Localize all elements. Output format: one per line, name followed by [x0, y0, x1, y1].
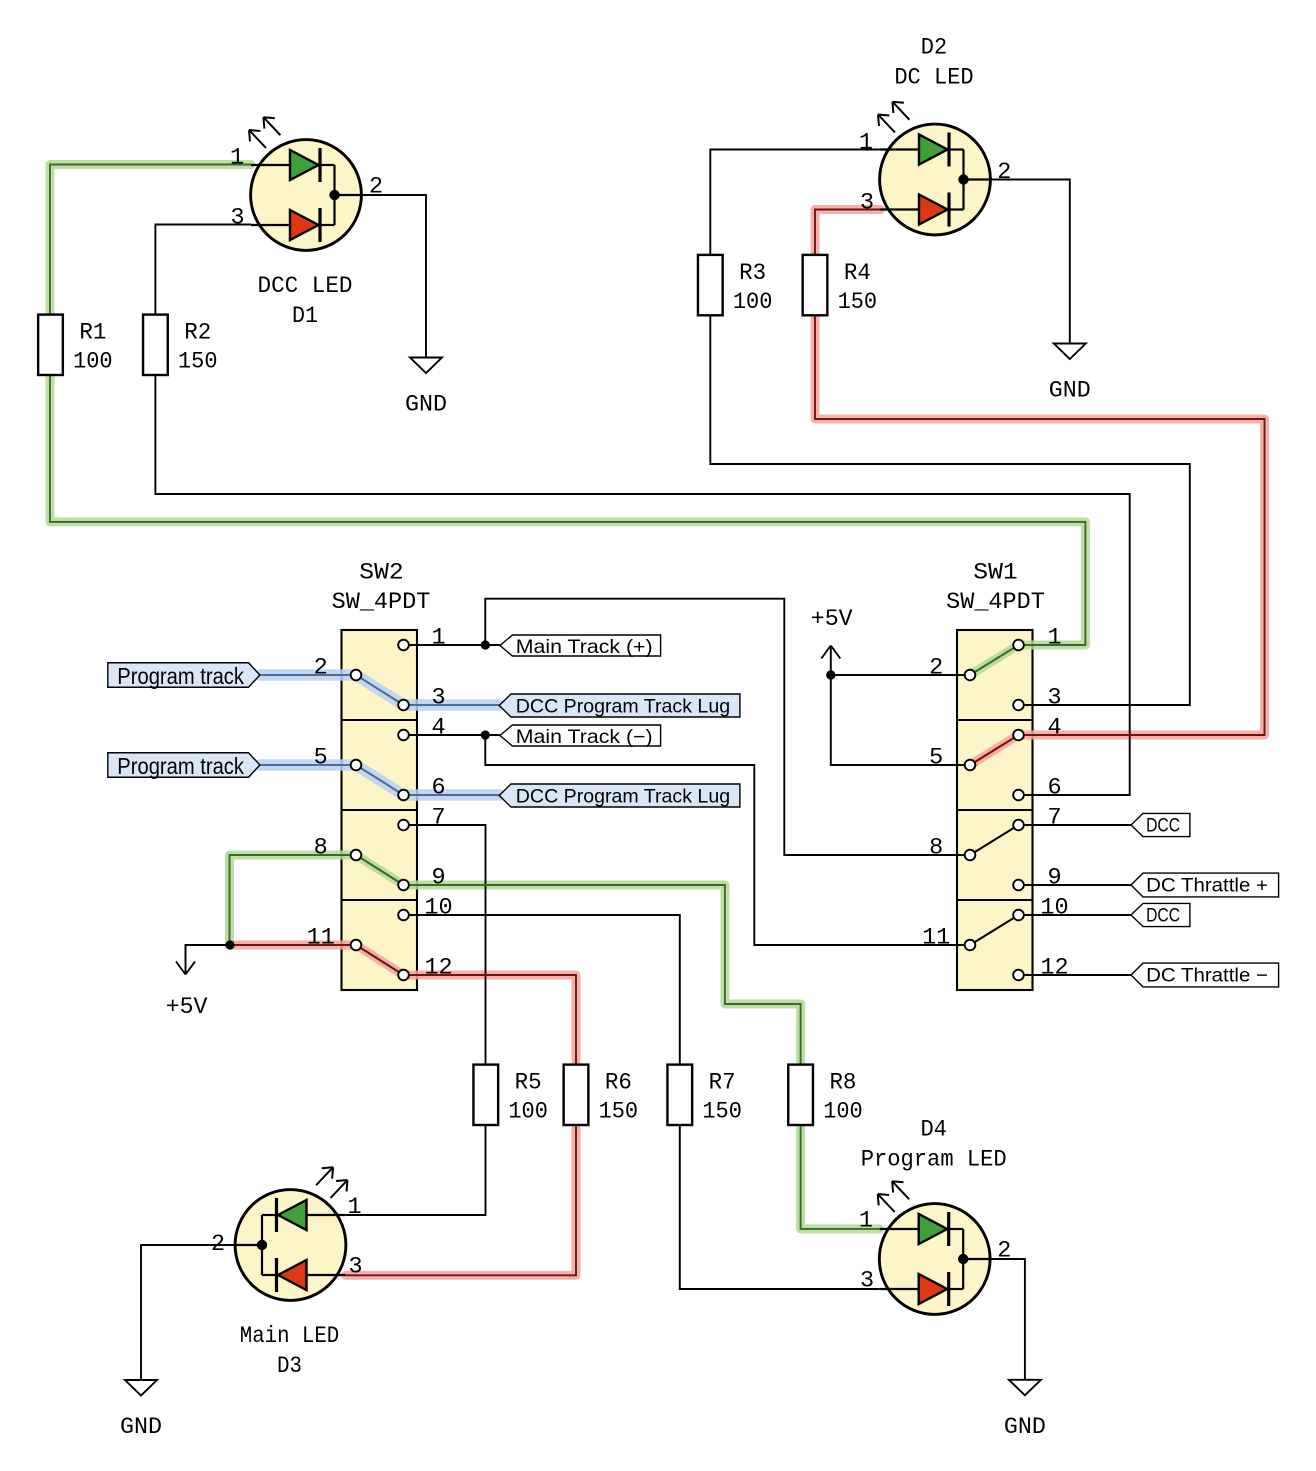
- svg-text:+5V: +5V: [811, 606, 853, 633]
- wire program-track net 2 blue glow: [260, 765, 499, 795]
- svg-text:2: 2: [211, 1231, 225, 1258]
- SW2 pin 2 circle: [351, 670, 362, 681]
- svg-text:SW_4PDT: SW_4PDT: [332, 589, 431, 616]
- svg-text:9: 9: [1047, 865, 1061, 892]
- net label Main Track (-): [500, 725, 661, 748]
- svg-text:2: 2: [369, 174, 383, 201]
- SW2 pin 7 circle: [398, 820, 409, 831]
- SW2 pin 10 circle: [398, 910, 409, 921]
- svg-text:100: 100: [733, 289, 773, 316]
- wire D1 pin3 to R2: [155, 225, 251, 315]
- svg-text:+5V: +5V: [166, 994, 208, 1021]
- junction +5V SW1: [826, 670, 835, 679]
- power symbol +5V at SW1: [811, 606, 853, 680]
- svg-text:2: 2: [997, 1238, 1011, 1265]
- resistor R3 100: [698, 255, 772, 316]
- svg-text:DCC Program Track Lug: DCC Program Track Lug: [516, 695, 730, 717]
- wire SW2 pin4 to Main Track - label: [409, 734, 500, 736]
- svg-text:12: 12: [1040, 955, 1068, 982]
- svg-text:D4: D4: [920, 1117, 947, 1144]
- wire D2 pin1 to R3: [710, 150, 880, 255]
- SW1 pin 2 circle: [965, 670, 976, 681]
- svg-text:2: 2: [314, 655, 328, 682]
- wire R3 to SW1 pin3: [710, 315, 1190, 705]
- SW1 pin 7 circle: [1013, 820, 1024, 831]
- SW2 pin 9 circle: [398, 880, 409, 891]
- wire program-LED net green glow: [230, 855, 880, 1229]
- SW2 lever pole2-throw3: [356, 675, 404, 705]
- svg-text:SW_4PDT: SW_4PDT: [946, 589, 1045, 616]
- wire SW2 pin1 to Main Track + label: [409, 644, 500, 646]
- svg-text:11: 11: [922, 925, 950, 952]
- resistor R5 100: [473, 1065, 547, 1126]
- net label DCC 1: [1131, 813, 1190, 836]
- switch SW2 body SW_4PDT: [342, 630, 418, 990]
- svg-text:Program track: Program track: [117, 663, 244, 689]
- svg-text:SW1: SW1: [973, 560, 1017, 587]
- SW1 pin 4 circle: [1013, 730, 1024, 741]
- svg-text:GND: GND: [120, 1414, 162, 1441]
- svg-text:9: 9: [431, 865, 445, 892]
- svg-text:DCC Program Track Lug: DCC Program Track Lug: [516, 785, 730, 807]
- svg-text:D1: D1: [292, 303, 318, 330]
- svg-text:GND: GND: [1049, 378, 1091, 405]
- SW2 pin 6 circle: [398, 790, 409, 801]
- net label DCC 2: [1131, 903, 1190, 926]
- wire red net main LED core: [230, 945, 576, 1275]
- svg-text:DCC LED: DCC LED: [258, 273, 353, 300]
- SW2 pin 4 circle: [398, 730, 409, 741]
- resistor R8 100: [788, 1065, 862, 1126]
- resistor R1 100: [38, 315, 112, 376]
- svg-text:Program LED: Program LED: [861, 1147, 1007, 1174]
- SW2 pin 8 circle: [351, 850, 362, 861]
- wire R2 to SW1 pin6: [155, 375, 1129, 795]
- SW1 pin 1 circle: [1013, 640, 1024, 651]
- wire blue net 1 core: [260, 675, 499, 705]
- svg-text:R8: R8: [829, 1070, 856, 1097]
- svg-text:D2: D2: [921, 35, 947, 62]
- wire D1 pin2 to GND: [361, 195, 426, 358]
- svg-text:GND: GND: [405, 392, 447, 419]
- svg-text:6: 6: [1047, 775, 1061, 802]
- SW1 pin 11 circle: [965, 940, 976, 951]
- svg-text:R2: R2: [184, 320, 211, 347]
- wire +5V branch SW2: [186, 945, 230, 961]
- svg-text:2: 2: [929, 655, 943, 682]
- svg-text:2: 2: [997, 159, 1011, 186]
- svg-text:R7: R7: [709, 1070, 736, 1097]
- SW1 lever pole8-throw7: [970, 825, 1019, 855]
- junction +5V SW2: [225, 940, 234, 949]
- net label DCC Program Track Lug 1: [499, 694, 740, 717]
- svg-text:7: 7: [431, 805, 445, 832]
- SW1 pin 8 circle: [965, 850, 976, 861]
- wire +5V to SW1 pin5: [831, 675, 965, 765]
- SW2 lever pole11-throw12: [356, 945, 404, 975]
- wire +5V to SW1 pin2: [831, 674, 965, 676]
- wire DCC-D1 net green glow: [50, 165, 1085, 676]
- svg-text:4: 4: [431, 715, 445, 742]
- SW1 pin 9 circle: [1013, 880, 1024, 891]
- svg-text:DCC: DCC: [1146, 904, 1180, 926]
- svg-text:1: 1: [431, 625, 445, 652]
- svg-text:Main LED: Main LED: [240, 1323, 339, 1350]
- wire SW2 pin7 to R5: [409, 825, 486, 1065]
- wire SW1 pin9 to DC Thrattle + label: [1024, 884, 1131, 886]
- wire Main Track - to SW1 pin11: [485, 735, 964, 945]
- power symbol +5V at SW2: [166, 945, 208, 1021]
- svg-text:DC Thrattle +: DC Thrattle +: [1146, 874, 1268, 896]
- net label Main Track (+): [500, 635, 661, 658]
- resistor R6 150: [564, 1065, 638, 1126]
- svg-text:8: 8: [314, 835, 328, 862]
- switch SW1 body SW_4PDT: [957, 630, 1033, 990]
- wire green net D1 core: [50, 165, 1085, 646]
- wire D3 pin2 to GND: [141, 1245, 235, 1380]
- ground symbol GND D1: [405, 358, 447, 419]
- SW1 pin 5 circle: [965, 760, 976, 771]
- bi-color LED D1: [249, 117, 361, 330]
- svg-text:5: 5: [314, 745, 328, 772]
- SW1 pin 6 circle: [1013, 790, 1024, 801]
- svg-text:150: 150: [838, 289, 878, 316]
- SW1 pin 10 circle: [1013, 910, 1024, 921]
- SW1 pin 12 circle: [1013, 970, 1024, 981]
- SW2 reference text: [332, 560, 431, 617]
- wire R5 to D3 pin1: [346, 1125, 486, 1215]
- svg-text:3: 3: [431, 685, 445, 712]
- svg-text:Program track: Program track: [117, 753, 244, 779]
- svg-text:Main Track (+): Main Track (+): [516, 636, 653, 658]
- svg-text:R3: R3: [739, 260, 766, 287]
- svg-text:Main Track (−): Main Track (−): [516, 726, 653, 748]
- svg-text:DC Thrattle −: DC Thrattle −: [1146, 964, 1268, 986]
- wire D4 pin2 to GND: [991, 1259, 1025, 1380]
- wire program-track net 1 blue glow: [260, 675, 499, 705]
- svg-text:100: 100: [823, 1099, 863, 1126]
- SW2 pin 11 circle: [351, 940, 362, 951]
- svg-text:7: 7: [1047, 805, 1061, 832]
- svg-text:6: 6: [431, 775, 445, 802]
- resistor R2 150: [143, 315, 217, 376]
- svg-text:D3: D3: [277, 1353, 302, 1380]
- svg-text:10: 10: [424, 895, 452, 922]
- svg-text:3: 3: [1047, 685, 1061, 712]
- wire SW2 pin10 to R7: [409, 915, 680, 1065]
- svg-text:100: 100: [508, 1099, 548, 1126]
- svg-text:150: 150: [178, 349, 218, 376]
- svg-text:DCC: DCC: [1146, 814, 1180, 836]
- svg-text:R4: R4: [844, 260, 871, 287]
- junction Main Track -: [481, 730, 490, 739]
- svg-text:4: 4: [1047, 715, 1061, 742]
- ground symbol GND D3: [120, 1380, 162, 1441]
- SW1 lever pole5-throw4: [970, 735, 1019, 765]
- svg-text:3: 3: [231, 205, 245, 232]
- wire SW1 pin10 to DCC label: [1024, 914, 1131, 916]
- SW2 pin 12 circle: [398, 970, 409, 981]
- wire DC-D2 net red glow: [815, 210, 1265, 766]
- svg-text:3: 3: [348, 1254, 362, 1281]
- resistor R4 150: [803, 255, 877, 316]
- svg-text:1: 1: [859, 130, 873, 157]
- wire red net D2 core: [815, 210, 1265, 736]
- net label DC Thrattle -: [1131, 963, 1279, 987]
- junction Main Track +: [481, 640, 490, 649]
- wire SW1 pin12 to DC Thrattle - label: [1024, 974, 1131, 976]
- SW2 pin 1 circle: [398, 640, 409, 651]
- SW1 lever pole11-throw10: [970, 915, 1019, 945]
- svg-text:11: 11: [307, 925, 335, 952]
- SW1 lever pole2-throw1: [970, 645, 1019, 675]
- SW1 pin 3 circle: [1013, 700, 1024, 711]
- ground symbol GND D2: [1049, 344, 1091, 405]
- net label Program track 1: [108, 663, 260, 689]
- svg-text:SW2: SW2: [359, 560, 403, 587]
- wire blue net 2 core: [260, 765, 499, 795]
- wire green net program LED core: [230, 855, 880, 1229]
- wire D2 pin2 to GND: [991, 180, 1070, 344]
- svg-text:10: 10: [1040, 895, 1068, 922]
- svg-text:1: 1: [347, 1194, 361, 1221]
- net label DC Thrattle +: [1131, 873, 1279, 897]
- bi-color LED D4: [861, 1117, 1007, 1315]
- svg-text:R6: R6: [605, 1070, 632, 1097]
- svg-text:3: 3: [860, 1268, 874, 1295]
- bi-color LED D2: [878, 35, 990, 235]
- svg-text:12: 12: [424, 955, 452, 982]
- SW2 pin 5 circle: [351, 760, 362, 771]
- svg-text:1: 1: [230, 145, 244, 172]
- wire SW1 pin7 to DCC label: [1024, 824, 1131, 826]
- net label DCC Program Track Lug 2: [499, 784, 740, 807]
- ground symbol GND D4: [1004, 1380, 1046, 1441]
- SW2 lever pole8-throw9: [356, 855, 404, 885]
- SW2 lever pole5-throw6: [356, 765, 404, 795]
- bi-color LED D3: [235, 1167, 347, 1380]
- net label Program track 2: [108, 753, 260, 779]
- svg-text:DC LED: DC LED: [894, 65, 973, 92]
- svg-text:150: 150: [702, 1099, 742, 1126]
- svg-text:GND: GND: [1004, 1414, 1046, 1441]
- svg-text:100: 100: [73, 349, 113, 376]
- svg-text:150: 150: [599, 1099, 639, 1126]
- svg-text:1: 1: [1047, 625, 1061, 652]
- SW1 reference text: [946, 560, 1045, 617]
- svg-text:5: 5: [929, 745, 943, 772]
- svg-text:8: 8: [929, 835, 943, 862]
- resistor R7 150: [667, 1065, 741, 1126]
- wire main-LED net red glow: [230, 945, 576, 1275]
- svg-text:R1: R1: [79, 320, 106, 347]
- wire R7 to D4 pin3: [680, 1125, 880, 1289]
- svg-text:1: 1: [859, 1208, 873, 1235]
- wire Main Track + to SW1 pin8: [485, 599, 964, 855]
- svg-text:3: 3: [860, 190, 874, 217]
- svg-text:R5: R5: [515, 1070, 542, 1097]
- SW2 pin 3 circle: [398, 700, 409, 711]
